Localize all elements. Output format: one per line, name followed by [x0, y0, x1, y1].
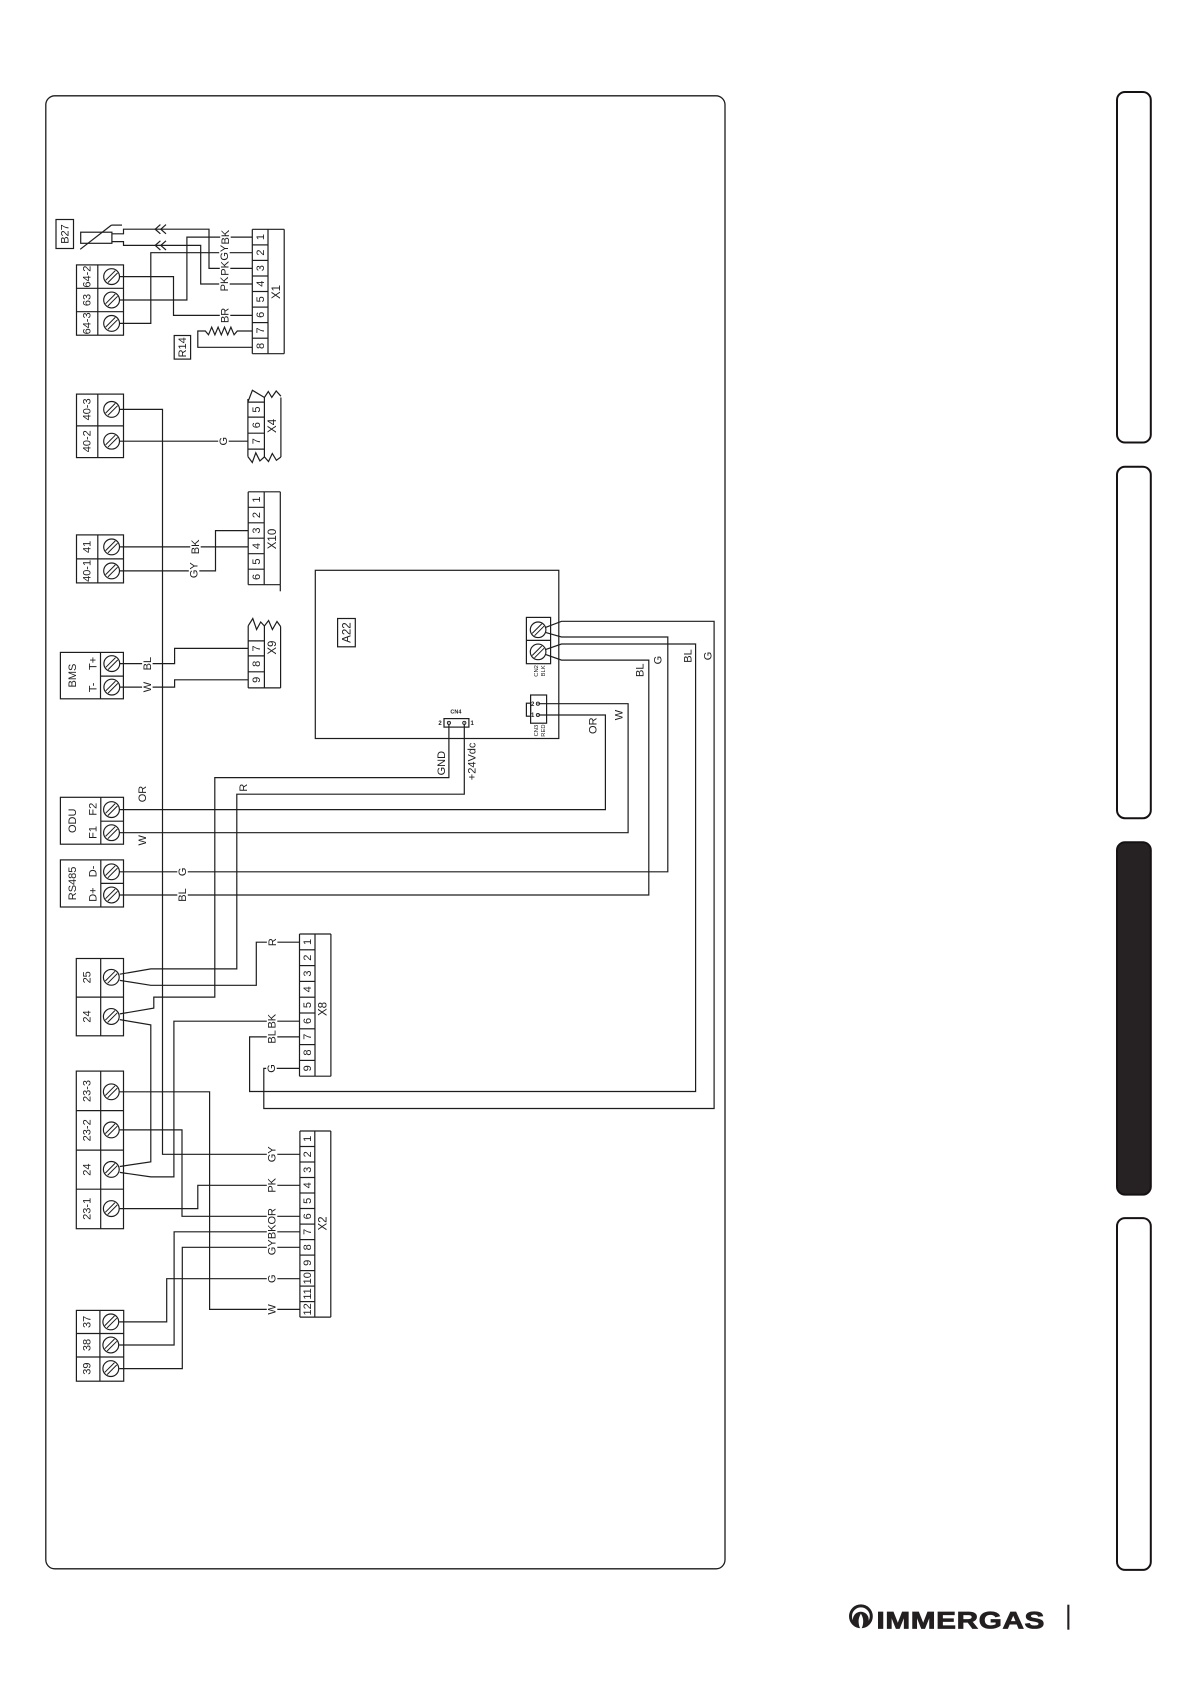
screw terminal 23-2 — [103, 1122, 119, 1138]
svg-text:38: 38 — [81, 1339, 93, 1351]
X9 pin numbers 7-9 — [251, 645, 263, 683]
svg-text:RS485: RS485 — [67, 867, 79, 901]
screw terminal 64-2 — [104, 269, 120, 285]
terminal block 40-3/40-2 — [77, 394, 124, 458]
svg-text:7: 7 — [302, 1034, 314, 1040]
svg-text:OR: OR — [267, 1208, 279, 1225]
screw terminal 40-1 — [104, 563, 120, 579]
wire 41 to X10 pin4 (BK) — [120, 539, 249, 554]
wire CN4 pin2 GND to terminal 24 — [120, 724, 449, 1014]
wire 39 to X2 pin8 (GY) — [119, 1239, 300, 1369]
label A22 — [338, 619, 356, 647]
resistor R14 between X1 pin7 and pin8 — [198, 327, 253, 347]
X8 label — [318, 1002, 330, 1016]
svg-text:64-3: 64-3 — [82, 312, 94, 334]
svg-text:W: W — [614, 709, 626, 720]
screw terminal 24 lower — [103, 1162, 119, 1178]
svg-text:R14: R14 — [177, 337, 189, 357]
svg-text:CN4: CN4 — [450, 710, 462, 716]
svg-text:40-1: 40-1 — [82, 560, 94, 582]
svg-text:10: 10 — [302, 1272, 314, 1284]
svg-text:GY: GY — [267, 1239, 279, 1256]
svg-text:6: 6 — [255, 312, 267, 318]
terminal block 25/24 — [76, 959, 123, 1036]
svg-text:CN3: CN3 — [534, 725, 540, 737]
svg-text:PK: PK — [219, 276, 231, 291]
footer separator bar — [1067, 1605, 1069, 1630]
wire label R at corner — [238, 784, 250, 792]
svg-text:BLK: BLK — [541, 665, 547, 676]
sidebar tab 2 — [1117, 467, 1151, 818]
wire terminal 25 to X8 pin1 (R) — [120, 935, 300, 985]
svg-text:39: 39 — [81, 1362, 93, 1374]
svg-text:ODU: ODU — [67, 809, 79, 834]
wire CN2 lower screw to RS485 D+ (BL) — [120, 654, 649, 902]
screw terminal 40-3 — [104, 402, 120, 418]
wire 23-2 to X2 pin6 (OR) — [120, 1130, 300, 1225]
svg-text:CN2: CN2 — [534, 665, 540, 677]
svg-text:BK: BK — [220, 229, 232, 244]
svg-text:9: 9 — [302, 1260, 314, 1266]
svg-text:1: 1 — [255, 234, 267, 240]
connector CN3 on A22 — [526, 695, 546, 723]
svg-text:BL: BL — [267, 1030, 279, 1043]
svg-text:G: G — [177, 868, 189, 877]
svg-text:GY: GY — [219, 244, 231, 261]
connector X10 — [248, 492, 280, 585]
label B27 — [56, 220, 74, 249]
wire label W near ODU — [137, 834, 149, 845]
svg-text:+24Vdc: +24Vdc — [467, 742, 479, 780]
screw terminal 25 — [103, 969, 119, 985]
net label GND — [436, 751, 448, 776]
svg-text:24: 24 — [82, 1010, 94, 1022]
svg-text:BMS: BMS — [67, 664, 79, 688]
svg-text:11: 11 — [302, 1288, 314, 1299]
wire lower 24 to X8 pin6 (BK) — [120, 1013, 300, 1177]
net label +24Vdc — [467, 742, 479, 780]
IMMERGAS logo flame — [859, 1614, 864, 1630]
CN3 pin 1 — [531, 713, 540, 719]
svg-text:BR: BR — [220, 308, 232, 323]
svg-text:BK: BK — [190, 539, 202, 554]
svg-text:G: G — [267, 1274, 279, 1283]
svg-text:3: 3 — [302, 1167, 314, 1173]
screw terminal BMS T- — [104, 679, 120, 695]
svg-text:BL: BL — [142, 657, 154, 670]
svg-text:T-: T- — [87, 682, 99, 692]
X4 break mark bottom — [248, 453, 281, 463]
svg-text:F1: F1 — [87, 826, 99, 839]
svg-text:7: 7 — [302, 1229, 314, 1235]
svg-text:40-3: 40-3 — [82, 398, 94, 420]
sidebar tab 4 — [1117, 1218, 1151, 1570]
sensor B27 (outdoor probe) — [80, 225, 122, 249]
wire sensor B27 bottom lead to X1 pin4 (PK) — [112, 242, 252, 292]
connector X1 — [252, 229, 284, 353]
wire 40-3 long run to X2 pin2 (GY) — [120, 409, 300, 1162]
svg-text:B27: B27 — [59, 224, 71, 244]
svg-text:3: 3 — [302, 970, 314, 976]
svg-text:24: 24 — [82, 1163, 94, 1175]
screw terminal 23-3 — [103, 1084, 119, 1100]
svg-text:2: 2 — [302, 1151, 314, 1157]
connector X4 (partial with break marks) — [248, 398, 281, 458]
svg-text:D+: D+ — [87, 887, 99, 901]
svg-text:6: 6 — [251, 422, 263, 428]
screw terminal BMS T+ — [104, 656, 120, 672]
svg-text:BK: BK — [267, 1224, 279, 1239]
svg-text:OR: OR — [137, 786, 149, 803]
X10 pin numbers 1-6 — [251, 496, 263, 580]
twisted-pair marks on bottom lead — [155, 241, 166, 250]
svg-text:6: 6 — [302, 1213, 314, 1219]
wire CN3 pin2 to ODU F1 (W) — [120, 704, 629, 833]
connector X2 — [300, 1131, 331, 1317]
screw terminal D+ — [104, 887, 120, 903]
svg-text:40-2: 40-2 — [82, 430, 94, 452]
screw terminal 39 — [103, 1361, 119, 1377]
svg-text:25: 25 — [82, 971, 94, 983]
svg-text:8: 8 — [255, 343, 267, 349]
svg-text:2: 2 — [255, 250, 267, 256]
screw terminal 64-3 — [104, 316, 120, 332]
wire label G near CN2 — [703, 652, 715, 661]
X2 label — [318, 1216, 330, 1230]
svg-text:OR: OR — [588, 717, 600, 734]
wire CN4 pin1 +24Vdc to terminal 25 — [120, 724, 465, 974]
wire 37 to X2 pin10 (G) — [119, 1272, 300, 1322]
svg-text:7: 7 — [251, 438, 263, 444]
screw terminal D- — [104, 864, 120, 880]
svg-text:F2: F2 — [87, 803, 99, 816]
wire BMS T+ to X9 pin7 (BL) — [120, 648, 249, 671]
wire BMS T- to X9 pin9 (W) — [120, 680, 249, 695]
X4 label — [267, 418, 279, 433]
terminal block ODU F1/F2 — [60, 797, 123, 844]
svg-text:4: 4 — [255, 281, 267, 287]
IMMERGAS logo flame disc — [853, 1612, 869, 1628]
svg-text:23-3: 23-3 — [82, 1080, 94, 1102]
wire 38 to X2 pin7 (BK) — [119, 1224, 300, 1345]
terminal block 41/40-1 — [77, 535, 124, 583]
connector X9 (partial with break mark) — [248, 626, 280, 688]
svg-text:GY: GY — [267, 1146, 279, 1163]
wire CN2 upper screw to RS485 D- (G) — [120, 632, 668, 879]
connector CN4 on A22 — [444, 719, 469, 728]
wire 40-2 to X4 pin7 (G) — [120, 434, 248, 449]
terminal block BMS T+/T- — [60, 652, 123, 698]
svg-text:A22: A22 — [341, 622, 353, 642]
svg-text:X2: X2 — [318, 1216, 330, 1230]
screw terminal 24 — [103, 1009, 119, 1025]
wire 63 to X1 pin1 (BK) — [120, 229, 253, 300]
screw terminal 37 — [103, 1314, 119, 1330]
svg-text:23-1: 23-1 — [82, 1198, 94, 1220]
twisted-pair marks on top lead — [155, 225, 166, 234]
label CN2 BLK — [534, 665, 547, 677]
screw terminal 38 — [103, 1337, 119, 1353]
svg-text:5: 5 — [302, 1198, 314, 1204]
terminal block 23-3/23-2/24/23-1 — [76, 1071, 123, 1229]
svg-text:RED: RED — [541, 724, 547, 736]
svg-text:5: 5 — [251, 407, 263, 413]
svg-text:23-2: 23-2 — [82, 1119, 94, 1141]
svg-text:T+: T+ — [87, 657, 99, 670]
svg-text:IMMERGAS: IMMERGAS — [877, 1608, 1046, 1635]
CN3 pin 2 — [531, 702, 540, 708]
screw terminal F1 — [104, 825, 120, 841]
svg-text:7: 7 — [255, 327, 267, 333]
svg-text:W: W — [137, 834, 149, 845]
svg-text:1: 1 — [302, 939, 314, 945]
wire terminal 24 to lower terminal 24 — [120, 1020, 151, 1167]
svg-text:8: 8 — [302, 1049, 314, 1055]
svg-text:BL: BL — [635, 663, 647, 676]
X10 body edge tail — [279, 585, 281, 592]
terminal block RS485 D+/D- — [60, 860, 123, 907]
svg-text:X1: X1 — [271, 285, 283, 299]
svg-text:64-2: 64-2 — [82, 266, 94, 288]
svg-text:3: 3 — [251, 527, 263, 533]
svg-text:X9: X9 — [267, 641, 279, 655]
label R14 — [174, 336, 190, 360]
X1 pin numbers 1-8 — [255, 234, 267, 349]
svg-text:5: 5 — [255, 296, 267, 302]
svg-text:5: 5 — [251, 558, 263, 564]
X8 pin numbers 1-9 — [302, 939, 314, 1072]
X1 label — [271, 285, 283, 299]
wire CN3 pin1 to ODU F2 (OR) — [120, 715, 606, 810]
label CN4 — [450, 710, 462, 716]
svg-text:G: G — [703, 652, 715, 661]
wire label OR near ODU — [137, 786, 149, 803]
terminal block 37/38/39 — [76, 1310, 123, 1381]
svg-text:1: 1 — [251, 496, 263, 502]
svg-text:9: 9 — [302, 1065, 314, 1071]
wire 64-3 to X1 pin2 (GY) — [120, 244, 253, 323]
svg-text:W: W — [267, 1304, 279, 1315]
wire 64-2 to X1 pin6 (BR) — [120, 277, 253, 323]
svg-text:R: R — [238, 784, 250, 792]
svg-text:9: 9 — [251, 677, 263, 683]
svg-text:12: 12 — [302, 1303, 314, 1315]
screw CN2 upper — [530, 622, 546, 638]
svg-text:R: R — [267, 938, 279, 946]
svg-text:BL: BL — [683, 649, 695, 662]
screw terminal 40-2 — [104, 433, 120, 449]
wire label W near CN3 — [614, 709, 626, 720]
svg-text:BL: BL — [177, 888, 189, 901]
terminal block 64-2/63/64-3 — [77, 265, 124, 335]
svg-text:8: 8 — [302, 1244, 314, 1250]
connector CN2 on A22 — [526, 617, 550, 663]
svg-text:2: 2 — [251, 512, 263, 518]
svg-text:6: 6 — [251, 574, 263, 580]
controller board A22 — [315, 570, 559, 738]
svg-text:W: W — [142, 681, 154, 692]
wire label BL near CN2 inner — [635, 663, 647, 676]
svg-text:PK: PK — [267, 1177, 279, 1192]
wire label BL near CN2 — [683, 649, 695, 662]
svg-text:G: G — [653, 656, 665, 665]
svg-text:3: 3 — [255, 265, 267, 271]
svg-text:X4: X4 — [267, 418, 279, 433]
svg-text:41: 41 — [82, 541, 94, 553]
CN4 pin 2 — [438, 721, 450, 727]
svg-text:5: 5 — [302, 1002, 314, 1008]
wire sensor B27 top lead to X1 pin3 (PK) — [112, 229, 252, 276]
screw terminal 63 — [104, 292, 120, 308]
X4 break mark top — [248, 390, 281, 402]
svg-text:X10: X10 — [267, 529, 279, 549]
sidebar tab 3 (active, black) — [1117, 842, 1151, 1194]
svg-text:PK: PK — [220, 260, 232, 275]
wire label G near CN2 inner — [653, 656, 665, 665]
svg-text:D-: D- — [87, 865, 99, 877]
svg-text:BK: BK — [267, 1013, 279, 1028]
screw terminal F2 — [104, 802, 120, 818]
schematic border frame — [46, 96, 725, 1569]
svg-text:1: 1 — [302, 1136, 314, 1142]
svg-text:X8: X8 — [318, 1002, 330, 1016]
label CN3 RED — [534, 724, 547, 736]
svg-text:4: 4 — [302, 986, 314, 992]
svg-text:8: 8 — [251, 661, 263, 667]
svg-text:7: 7 — [251, 645, 263, 651]
X10 label — [267, 529, 279, 549]
connector X8 — [300, 934, 331, 1076]
wire 40-1 to X10 pin3 (GY) — [120, 531, 249, 579]
X9 break mark top — [248, 619, 280, 630]
svg-text:G: G — [218, 437, 230, 446]
svg-text:G: G — [266, 1064, 278, 1073]
svg-text:63: 63 — [82, 294, 94, 306]
svg-text:6: 6 — [302, 1018, 314, 1024]
CN4 pin 1 — [463, 721, 475, 727]
wire label OR near CN3 — [588, 717, 600, 734]
wire 23-3 to X2 pin12 (W) — [120, 1092, 300, 1317]
svg-text:4: 4 — [302, 1182, 314, 1188]
IMMERGAS logo ring — [851, 1606, 872, 1627]
svg-text:GND: GND — [436, 751, 448, 776]
sidebar tab 1 — [1117, 92, 1151, 443]
wire CN2 upper screw to X8 pin9 (G) — [264, 621, 714, 1108]
svg-text:GY: GY — [189, 562, 201, 579]
svg-text:4: 4 — [251, 543, 263, 549]
wire CN2 lower screw to X8 pin7 (BL) — [250, 644, 696, 1092]
screw terminal 41 — [104, 539, 120, 555]
X4 pin numbers 5-7 — [251, 407, 263, 445]
wire 23-1 to X2 pin4 (PK) — [120, 1177, 300, 1208]
X2 pin numbers 1-12 — [302, 1136, 314, 1316]
screw terminal 23-1 — [103, 1201, 119, 1217]
screw CN2 lower — [530, 644, 546, 660]
X9 label — [267, 641, 279, 655]
svg-text:37: 37 — [81, 1316, 93, 1328]
svg-text:2: 2 — [302, 955, 314, 961]
